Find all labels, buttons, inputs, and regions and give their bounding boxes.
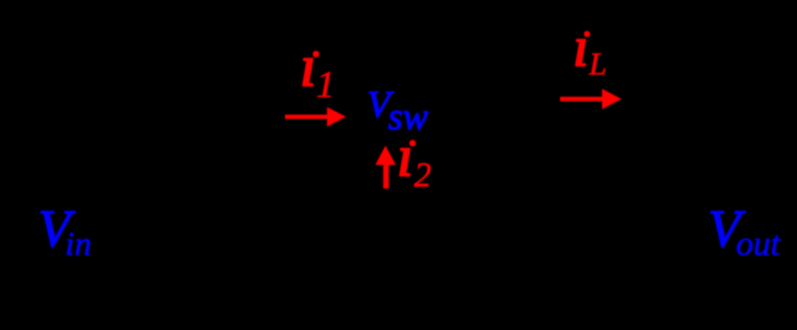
svg-text:L: L [588,46,607,82]
svg-text:ı: ı [573,17,589,79]
svg-text:2: 2 [414,157,431,195]
svg-text:ı: ı [397,124,413,189]
svg-text:ı: ı [300,34,316,99]
svg-text:in: in [65,226,91,263]
svg-text:out: out [736,225,782,263]
svg-text:1: 1 [316,64,335,106]
